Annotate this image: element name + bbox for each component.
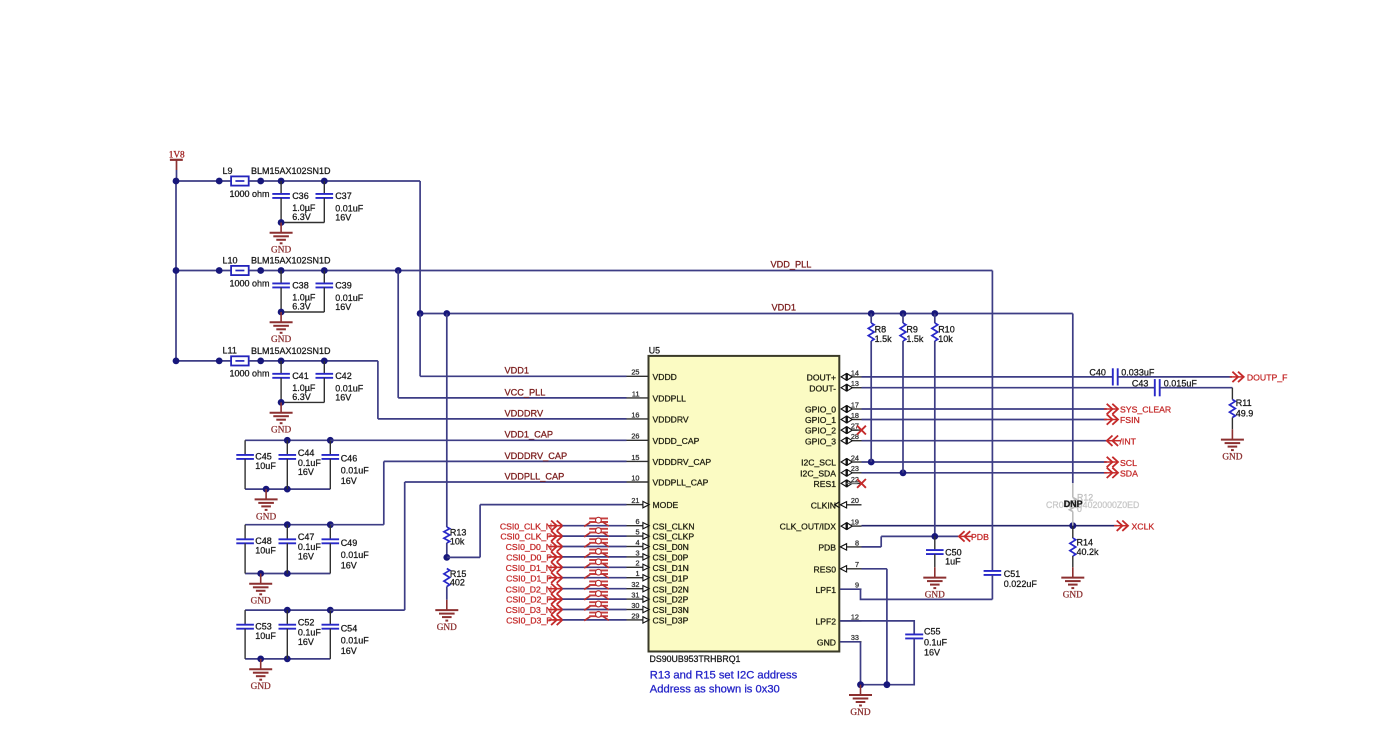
svg-text:C52: C52 — [298, 618, 315, 628]
svg-text:19: 19 — [851, 518, 859, 527]
svg-text:CSI_D3N: CSI_D3N — [653, 605, 689, 615]
svg-text:0.01uF: 0.01uF — [341, 635, 370, 645]
svg-text:16V: 16V — [924, 647, 940, 657]
svg-text:31: 31 — [631, 591, 639, 600]
svg-text:C43: C43 — [1132, 379, 1149, 389]
svg-text:33: 33 — [851, 633, 859, 642]
svg-text:32: 32 — [631, 580, 639, 589]
svg-text:16V: 16V — [335, 302, 351, 312]
svg-text:CSI0_D2_P: CSI0_D2_P — [506, 595, 552, 605]
svg-text:CR0402J4020000Z0ED: CR0402J4020000Z0ED — [1046, 500, 1139, 510]
svg-text:16V: 16V — [335, 393, 351, 403]
svg-text:GND: GND — [1063, 591, 1083, 601]
svg-text:10uF: 10uF — [255, 631, 276, 641]
svg-text:R14: R14 — [1077, 537, 1094, 547]
svg-text:PDB: PDB — [971, 532, 989, 542]
svg-text:25: 25 — [631, 368, 639, 377]
svg-text:VDDPLL_CAP: VDDPLL_CAP — [653, 478, 709, 488]
svg-text:CSI0_D2_N: CSI0_D2_N — [506, 584, 552, 594]
svg-text:GND: GND — [271, 246, 291, 256]
svg-text:16: 16 — [631, 410, 639, 419]
svg-text:DNP: DNP — [1064, 499, 1083, 509]
svg-text:CSI0_D1_P: CSI0_D1_P — [506, 573, 552, 583]
svg-text:18: 18 — [851, 411, 859, 420]
svg-text:C45: C45 — [255, 452, 272, 462]
svg-text:BLM15AX102SN1D: BLM15AX102SN1D — [251, 166, 331, 176]
svg-text:C51: C51 — [1004, 569, 1021, 579]
svg-text:L11: L11 — [223, 346, 237, 356]
svg-text:CSI_D1P: CSI_D1P — [653, 573, 689, 583]
svg-text:CSI0_CLK_P: CSI0_CLK_P — [500, 532, 552, 542]
svg-text:VCC_PLL: VCC_PLL — [505, 387, 546, 397]
svg-text:CSI0_D3_P: CSI0_D3_P — [506, 616, 552, 626]
svg-text:10uF: 10uF — [255, 546, 276, 556]
svg-text:PDB: PDB — [818, 543, 836, 553]
svg-text:RES0: RES0 — [814, 564, 837, 574]
svg-text:VDDDRV_CAP: VDDDRV_CAP — [653, 457, 712, 467]
svg-text:VDDDRV_CAP: VDDDRV_CAP — [505, 451, 568, 461]
svg-text:CSI_CLKP: CSI_CLKP — [653, 532, 695, 542]
svg-text:VDDPLL: VDDPLL — [653, 394, 687, 404]
svg-text:1uF: 1uF — [945, 556, 961, 566]
svg-text:CLK_OUT/IDX: CLK_OUT/IDX — [780, 522, 837, 532]
svg-text:VDDD: VDDD — [653, 372, 677, 382]
svg-text:GND: GND — [850, 708, 870, 718]
svg-text:DOUT-: DOUT- — [809, 383, 836, 393]
svg-text:2: 2 — [635, 559, 639, 568]
svg-text:SYS_CLEAR: SYS_CLEAR — [1120, 405, 1171, 415]
svg-text:DOUTP_F: DOUTP_F — [1247, 373, 1288, 383]
svg-text:C48: C48 — [255, 536, 272, 546]
svg-text:Address as shown is 0x30: Address as shown is 0x30 — [650, 684, 780, 696]
svg-text:VDDDRV: VDDDRV — [505, 408, 545, 418]
svg-text:R13 and R15 set I2C address: R13 and R15 set I2C address — [650, 670, 798, 682]
svg-text:VDD1: VDD1 — [505, 366, 530, 376]
svg-text:R8: R8 — [875, 324, 887, 334]
svg-text:DS90UB953TRHBRQ1: DS90UB953TRHBRQ1 — [650, 654, 741, 664]
svg-text:6: 6 — [635, 517, 639, 526]
svg-text:6.3V: 6.3V — [292, 212, 311, 222]
svg-text:LPF2: LPF2 — [815, 617, 836, 627]
svg-text:6.3V: 6.3V — [292, 302, 311, 312]
svg-text:402: 402 — [450, 578, 465, 588]
svg-text:1: 1 — [635, 569, 639, 578]
svg-text:40.2k: 40.2k — [1077, 547, 1100, 557]
svg-text:GND: GND — [271, 426, 291, 436]
svg-text:1V8: 1V8 — [169, 151, 185, 161]
svg-text:GND: GND — [256, 512, 276, 522]
svg-text:9: 9 — [855, 581, 859, 590]
svg-text:FSIN: FSIN — [1120, 415, 1140, 425]
svg-text:C44: C44 — [298, 448, 315, 458]
svg-text:SCL: SCL — [1120, 458, 1137, 468]
svg-text:0.01uF: 0.01uF — [341, 466, 370, 476]
svg-text:CSI0_D1_N: CSI0_D1_N — [506, 563, 552, 573]
svg-text:1.5k: 1.5k — [906, 334, 924, 344]
svg-text:1000 ohm: 1000 ohm — [230, 278, 270, 288]
svg-text:10k: 10k — [450, 536, 465, 546]
svg-text:16V: 16V — [298, 637, 314, 647]
svg-text:20: 20 — [851, 496, 859, 505]
svg-text:C40: C40 — [1089, 368, 1106, 378]
svg-text:LPF1: LPF1 — [815, 585, 836, 595]
svg-text:CSI_D3P: CSI_D3P — [653, 616, 689, 626]
svg-text:L10: L10 — [223, 255, 238, 265]
svg-text:CSI0_D0_N: CSI0_D0_N — [506, 542, 552, 552]
svg-text:VDDD_CAP: VDDD_CAP — [653, 436, 700, 446]
svg-text:26: 26 — [631, 432, 639, 441]
svg-text:SDA: SDA — [1120, 469, 1138, 479]
svg-text:XCLK: XCLK — [1132, 522, 1155, 532]
svg-text:C49: C49 — [341, 538, 358, 548]
svg-text:C47: C47 — [298, 532, 315, 542]
svg-text:24: 24 — [851, 453, 859, 462]
svg-text:I2C_SCL: I2C_SCL — [801, 458, 836, 468]
svg-text:11: 11 — [632, 389, 640, 398]
svg-text:CSI_D0P: CSI_D0P — [653, 553, 689, 563]
svg-text:0.022uF: 0.022uF — [1004, 579, 1038, 589]
svg-text:0.015uF: 0.015uF — [1164, 379, 1198, 389]
svg-text:CSI_CLKN: CSI_CLKN — [653, 521, 695, 531]
svg-text:0.1uF: 0.1uF — [924, 637, 948, 647]
svg-text:GND: GND — [817, 637, 836, 647]
svg-text:16V: 16V — [341, 561, 357, 571]
svg-text:C54: C54 — [341, 623, 358, 633]
svg-text:RES1: RES1 — [814, 479, 837, 489]
svg-text:7: 7 — [855, 560, 859, 569]
svg-text:CSI0_D3_N: CSI0_D3_N — [506, 605, 552, 615]
svg-text:23: 23 — [851, 464, 859, 473]
svg-text:29: 29 — [631, 611, 639, 620]
svg-text:R11: R11 — [1236, 398, 1252, 408]
svg-text:I2C_SDA: I2C_SDA — [800, 468, 836, 478]
svg-text:VDD1: VDD1 — [772, 303, 797, 313]
svg-text:BLM15AX102SN1D: BLM15AX102SN1D — [251, 256, 331, 266]
svg-text:CSI0_CLK_N: CSI0_CLK_N — [500, 521, 552, 531]
svg-text:/INT: /INT — [1120, 437, 1137, 447]
svg-text:8: 8 — [855, 538, 859, 547]
svg-text:16V: 16V — [335, 213, 351, 223]
svg-text:GND: GND — [437, 623, 457, 633]
svg-text:3: 3 — [635, 548, 639, 557]
svg-text:VDD1_CAP: VDD1_CAP — [505, 430, 554, 440]
svg-text:16V: 16V — [298, 552, 314, 562]
svg-text:C42: C42 — [335, 371, 352, 381]
svg-text:U5: U5 — [649, 346, 660, 356]
svg-text:C55: C55 — [924, 627, 941, 637]
svg-text:17: 17 — [851, 400, 859, 409]
svg-text:CLKIN: CLKIN — [811, 500, 836, 510]
svg-text:GPIO_0: GPIO_0 — [805, 405, 836, 415]
svg-text:C38: C38 — [292, 281, 309, 291]
svg-text:C41: C41 — [292, 371, 309, 381]
svg-text:DOUT+: DOUT+ — [807, 373, 836, 383]
svg-text:VDDPLL_CAP: VDDPLL_CAP — [505, 471, 565, 481]
svg-text:30: 30 — [631, 601, 639, 610]
svg-text:R10: R10 — [938, 324, 955, 334]
svg-text:VDDDRV: VDDDRV — [653, 415, 689, 425]
svg-text:15: 15 — [631, 453, 639, 462]
svg-text:5: 5 — [635, 528, 639, 537]
svg-text:L9: L9 — [223, 166, 233, 176]
svg-text:49.9: 49.9 — [1236, 408, 1254, 418]
svg-text:4: 4 — [635, 538, 639, 547]
svg-text:GPIO_2: GPIO_2 — [805, 426, 836, 436]
svg-text:GPIO_1: GPIO_1 — [805, 415, 836, 425]
svg-text:GPIO_3: GPIO_3 — [805, 436, 836, 446]
svg-text:GND: GND — [271, 335, 291, 345]
svg-text:16V: 16V — [341, 646, 357, 656]
svg-text:13: 13 — [851, 379, 859, 388]
svg-text:10: 10 — [631, 473, 639, 482]
svg-text:16V: 16V — [341, 476, 357, 486]
svg-text:GND: GND — [1222, 453, 1242, 463]
svg-text:C37: C37 — [335, 191, 352, 201]
svg-text:10uF: 10uF — [255, 461, 276, 471]
svg-text:R9: R9 — [906, 324, 918, 334]
svg-text:CSI_D1N: CSI_D1N — [653, 563, 689, 573]
svg-text:14: 14 — [851, 368, 859, 377]
svg-text:12: 12 — [851, 612, 859, 621]
svg-text:C36: C36 — [292, 191, 309, 201]
svg-text:CSI0_D0_P: CSI0_D0_P — [506, 553, 552, 563]
svg-text:21: 21 — [631, 496, 639, 505]
svg-text:C39: C39 — [335, 281, 352, 291]
svg-text:1000 ohm: 1000 ohm — [230, 189, 270, 199]
svg-text:0.01uF: 0.01uF — [341, 550, 370, 560]
svg-text:MODE: MODE — [653, 500, 679, 510]
svg-text:CSI_D2P: CSI_D2P — [653, 595, 689, 605]
svg-text:C46: C46 — [341, 454, 358, 464]
svg-text:BLM15AX102SN1D: BLM15AX102SN1D — [251, 346, 331, 356]
svg-text:VDD_PLL: VDD_PLL — [771, 259, 812, 269]
svg-text:16V: 16V — [298, 467, 314, 477]
svg-text:1.5k: 1.5k — [875, 334, 893, 344]
svg-text:10k: 10k — [938, 334, 953, 344]
svg-text:1000 ohm: 1000 ohm — [230, 369, 270, 379]
svg-text:0.033uF: 0.033uF — [1121, 368, 1155, 378]
svg-text:6.3V: 6.3V — [292, 392, 311, 402]
svg-text:CSI_D0N: CSI_D0N — [653, 542, 689, 552]
svg-text:C53: C53 — [255, 621, 272, 631]
svg-text:GND: GND — [251, 597, 271, 607]
svg-text:CSI_D2N: CSI_D2N — [653, 584, 689, 594]
svg-text:GND: GND — [251, 682, 271, 692]
